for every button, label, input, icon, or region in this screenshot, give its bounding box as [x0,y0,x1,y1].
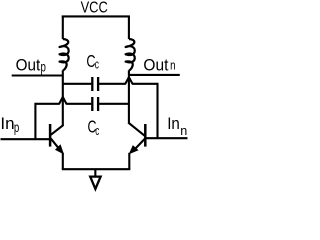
label Cc bottom [88,117,100,138]
svg-text:VCC: VCC [81,0,108,17]
wire output Outp [12,74,63,76]
wire right emitter vertical [128,153,130,169]
transistor Q2 collector stroke [128,123,144,136]
ground stub [94,169,96,176]
inductor L1 (left tank coil) [60,39,69,71]
svg-text:n: n [170,59,175,73]
label Inp [0,115,19,135]
wire left branch from rail to inductor [62,16,64,39]
wire right collector vertical [128,70,130,122]
svg-text:c: c [95,58,99,72]
transistor Q1 collector stroke [51,125,64,135]
svg-text:Out: Out [143,56,168,75]
wire input Inp [1,138,50,140]
label Inn [167,115,187,138]
transistor Q2 emitter arrowhead [130,146,138,154]
wire drop to left base [34,103,36,139]
transistor Q1 base bar [49,124,52,147]
wire from left collector to capacitor Cc top [63,83,92,85]
transistor Q1 emitter arrowhead [56,145,63,153]
wire from capacitor Cc top with hop over right collector [99,77,157,84]
wire drop to right base [156,83,158,138]
label Outp [16,56,46,75]
capacitor Cc (bottom) plates [92,97,98,111]
wire left collector vertical [62,70,64,125]
svg-text:p: p [14,119,20,135]
capacitor Cc (top) plates [92,77,98,91]
label Cc top [86,51,98,71]
wire right branch from rail to inductor [128,16,130,39]
svg-text:In: In [0,115,14,133]
transistor Q2 emitter stroke [135,139,145,149]
wire left emitter vertical [62,153,64,169]
svg-text:n: n [180,124,187,138]
transistor Q1 emitter stroke [51,139,59,149]
wire output Outn [129,74,180,76]
svg-text:p: p [41,58,47,74]
wire input Inn [146,137,187,139]
transistor Q2 base bar [144,124,147,147]
wire common emitter rail [62,168,131,170]
svg-text:Out: Out [16,56,41,75]
svg-text:In: In [167,115,180,133]
wire from right collector to capacitor Cc bottom with hop over left collector [35,97,128,104]
svg-text:c: c [95,124,99,138]
VCC supply rail [62,15,130,17]
label Outn [143,56,175,75]
ground symbol (open triangle) [90,177,100,189]
inductor L2 (right tank coil) [126,39,135,71]
